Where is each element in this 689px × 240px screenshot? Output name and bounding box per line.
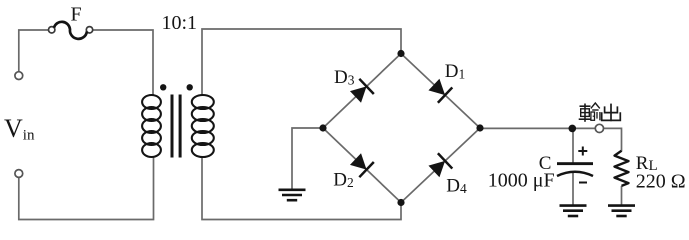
svg-text:D2: D2 <box>333 170 353 191</box>
svg-text:D4: D4 <box>446 175 467 196</box>
svg-text:1000 μF: 1000 μF <box>488 169 555 191</box>
svg-text:10:1: 10:1 <box>162 12 198 34</box>
svg-text:220 Ω: 220 Ω <box>636 171 686 193</box>
svg-text:D3: D3 <box>334 67 355 88</box>
svg-text:D1: D1 <box>445 61 465 82</box>
svg-text:F: F <box>71 4 82 26</box>
svg-text:Vin: Vin <box>4 114 35 144</box>
